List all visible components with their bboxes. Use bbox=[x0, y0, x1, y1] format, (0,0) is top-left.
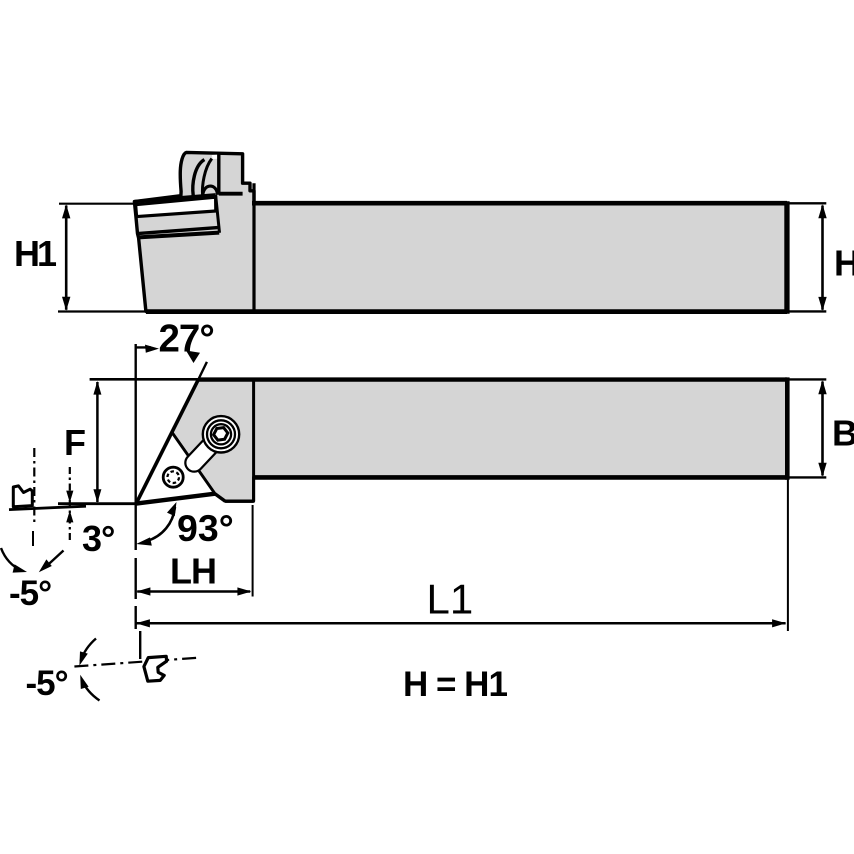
H1 bottom extension line bbox=[58, 310, 146, 312]
lower -5deg insert cross-section symbol bbox=[144, 656, 167, 681]
93deg arc bbox=[147, 507, 175, 541]
slant annotation extension bbox=[198, 362, 207, 380]
shank top edge extension (thin, to H dim) bbox=[787, 202, 826, 204]
svg-text:LH: LH bbox=[170, 551, 216, 592]
H1 dimension line bbox=[65, 206, 68, 310]
svg-text:27°: 27° bbox=[159, 318, 214, 361]
svg-text:3°: 3° bbox=[82, 518, 114, 559]
clamp inner curve 2 bbox=[202, 159, 211, 196]
L1 right extension bbox=[787, 480, 789, 632]
band top edge bbox=[134, 195, 215, 202]
plan body silhouette bbox=[172, 379, 787, 501]
band right edge bbox=[216, 195, 220, 233]
svg-text:-5°: -5° bbox=[9, 574, 51, 613]
svg-text:93°: 93° bbox=[177, 507, 234, 549]
H dimension line bbox=[821, 206, 824, 310]
clamp arm capsule bbox=[194, 434, 221, 463]
upper -5deg right arrow line bbox=[45, 551, 64, 568]
27deg tick line bbox=[135, 346, 151, 348]
insert (white, 55deg diamond tip) bbox=[136, 432, 215, 503]
svg-text:F: F bbox=[64, 422, 85, 463]
lower -5deg lower arc arrow bbox=[82, 680, 100, 701]
svg-text:L1: L1 bbox=[427, 576, 474, 623]
upper -5deg insert cross-section symbol bbox=[13, 486, 32, 507]
svg-text:B: B bbox=[832, 413, 854, 454]
svg-text:H: H bbox=[834, 243, 854, 284]
clamp screw hex socket bbox=[214, 428, 228, 441]
clamp right block bottom edge bbox=[219, 192, 243, 196]
head/shank boundary (side view) bbox=[252, 183, 255, 311]
shank right cut edge bbox=[785, 201, 790, 313]
clamp screw head circles bbox=[203, 416, 239, 452]
lower -5deg upper arc arrow bbox=[81, 639, 96, 662]
L1 dimension line bbox=[136, 622, 785, 625]
shank bottom edge thick bbox=[146, 309, 787, 314]
head/shank boundary (plan) bbox=[252, 379, 255, 501]
tip horizontal reference line bbox=[58, 502, 136, 505]
B dimension line bbox=[821, 382, 824, 476]
plan top edge extension left (F ref) bbox=[90, 378, 199, 381]
band seam line bbox=[139, 233, 220, 238]
head leading edge slant 27deg bbox=[136, 379, 198, 503]
band lower edge bbox=[138, 228, 218, 234]
vertical reference line through tip bbox=[134, 344, 136, 550]
clamp inner curve 1 bbox=[193, 160, 205, 196]
F dimension line bbox=[96, 382, 99, 502]
upper -5deg dashed axis bbox=[33, 448, 35, 523]
lower -5deg dash-dot axis bbox=[74, 658, 200, 667]
shank bottom edge extension (thin) bbox=[787, 310, 826, 312]
clamp nose arc bbox=[203, 186, 218, 195]
shank top edge thick bbox=[252, 201, 787, 206]
plan bottom edge thick bbox=[254, 475, 787, 480]
upper -5deg left arc arrow bbox=[1, 548, 22, 571]
plan top edge extension right bbox=[787, 378, 826, 380]
lower -5deg short vertical reference bbox=[139, 631, 141, 659]
insert cutting edge bbox=[136, 494, 215, 504]
plan right cut edge bbox=[785, 377, 790, 479]
LH right extension bbox=[252, 505, 254, 597]
LH dimension line bbox=[137, 590, 250, 593]
insert screw (small) bbox=[163, 467, 183, 487]
3deg sloped line bbox=[9, 506, 86, 509]
27deg slant arrowhead bbox=[186, 351, 200, 364]
svg-text:-5°: -5° bbox=[26, 664, 68, 703]
svg-text:H = H1: H = H1 bbox=[403, 665, 507, 704]
holder body silhouette bbox=[134, 152, 786, 311]
svg-text:H1: H1 bbox=[14, 233, 57, 274]
upper band (white) bbox=[136, 197, 216, 216]
H1 top extension line bbox=[59, 203, 134, 205]
head bottom diagonal bbox=[215, 494, 225, 502]
plan bottom edge extension right bbox=[787, 476, 826, 478]
clamp right block left edge bbox=[217, 153, 220, 195]
plan top edge thick bbox=[198, 377, 787, 381]
head bottom edge bbox=[225, 500, 253, 503]
3deg mini dimension dashes bbox=[69, 467, 71, 543]
notch between clamp humps bbox=[212, 155, 219, 159]
